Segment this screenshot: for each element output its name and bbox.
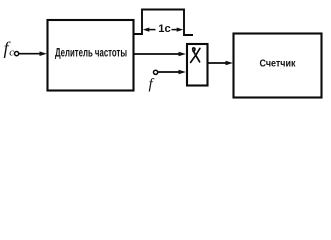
dimension arrow left bbox=[147, 29, 156, 31]
block: frequency divider (Делитель частоты) bbox=[48, 20, 134, 91]
svg-text:1с: 1с bbox=[158, 23, 171, 35]
input terminal circle fc bbox=[15, 52, 19, 56]
svg-text:Делитель частоты: Делитель частоты bbox=[55, 47, 127, 59]
block: counter (Счетчик) bbox=[234, 34, 322, 98]
wire gate to counter bbox=[208, 62, 227, 64]
svg-text:c: c bbox=[9, 47, 14, 59]
wire fc to divider bbox=[19, 53, 41, 55]
AND symbol & (script ampersand: looped stroke) bbox=[193, 48, 200, 62]
node f terminal circle bbox=[154, 70, 158, 74]
svg-text:Счетчик: Счетчик bbox=[260, 58, 296, 69]
gate box (AND gate U1) bbox=[187, 44, 208, 86]
AND symbol & (crossing stroke) bbox=[191, 48, 200, 62]
wire f to gate bbox=[158, 71, 180, 73]
pulse waveform annotation (1 s gate pulse) bbox=[134, 10, 193, 36]
dimension arrow right bbox=[172, 29, 180, 31]
wire divider to gate bbox=[135, 53, 180, 55]
